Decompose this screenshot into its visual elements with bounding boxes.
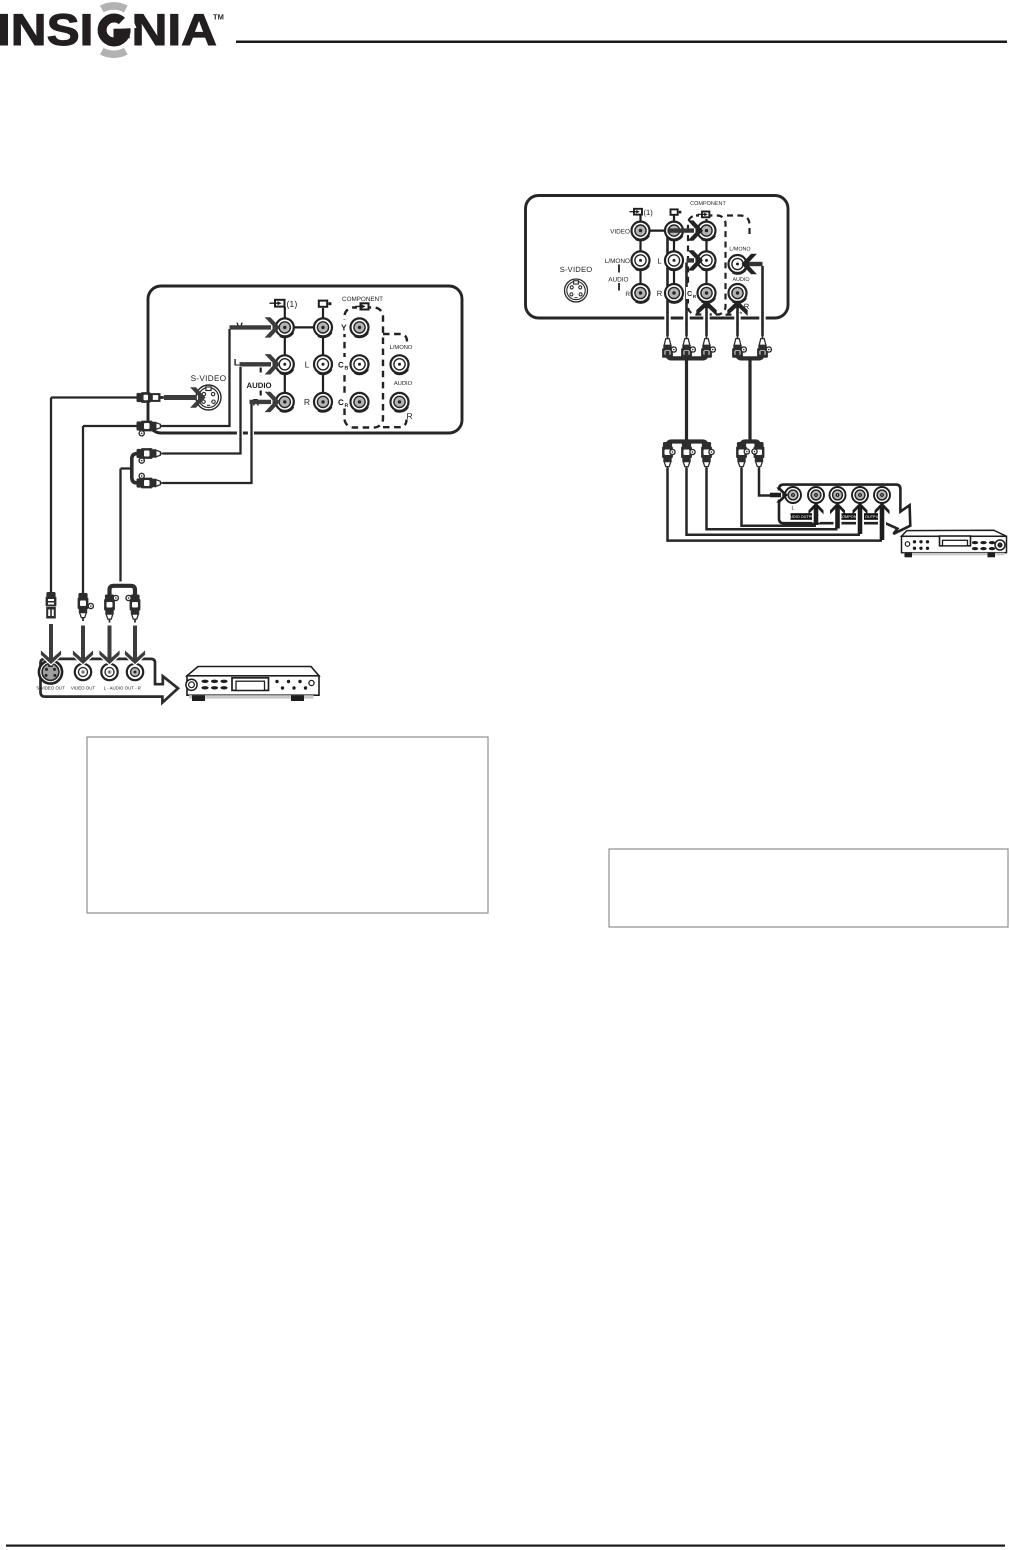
svg-text:C: C bbox=[338, 361, 344, 370]
svg-text:L/MONO: L/MONO bbox=[390, 344, 413, 351]
svg-text:L/MONO: L/MONO bbox=[605, 258, 630, 265]
svg-text:AUDIO: AUDIO bbox=[394, 380, 413, 387]
svg-text:COMPONENT: COMPONENT bbox=[342, 296, 383, 303]
svg-text:VIDEO OUT: VIDEO OUT bbox=[71, 686, 95, 691]
svg-text:S-VIDEO: S-VIDEO bbox=[560, 265, 593, 274]
svg-text:L/MONO: L/MONO bbox=[729, 246, 750, 252]
svg-text:INSI: INSI bbox=[0, 6, 93, 55]
svg-text:(1): (1) bbox=[287, 299, 298, 309]
svg-text:VIDEO: VIDEO bbox=[610, 228, 630, 235]
svg-text:S-VIDEO OUT: S-VIDEO OUT bbox=[36, 686, 65, 691]
svg-text:R: R bbox=[657, 289, 663, 298]
svg-text:L: L bbox=[305, 360, 310, 370]
svg-text:S-VIDEO: S-VIDEO bbox=[191, 374, 227, 383]
svg-text:C: C bbox=[687, 289, 692, 298]
svg-text:AUDIO: AUDIO bbox=[608, 276, 628, 283]
svg-text:B: B bbox=[345, 366, 349, 372]
svg-text:L: L bbox=[657, 256, 661, 265]
svg-text:R: R bbox=[345, 403, 349, 409]
svg-text:AUDIO: AUDIO bbox=[732, 277, 749, 283]
svg-text:R: R bbox=[406, 411, 412, 421]
svg-text:C: C bbox=[338, 398, 344, 407]
svg-text:(1): (1) bbox=[644, 208, 654, 217]
svg-text:R: R bbox=[625, 291, 630, 298]
svg-text:L: L bbox=[234, 358, 240, 369]
svg-text:L: L bbox=[792, 506, 795, 512]
svg-text:NIA: NIA bbox=[132, 6, 217, 55]
svg-text:R: R bbox=[304, 397, 310, 407]
svg-text:COMPONENT: COMPONENT bbox=[690, 201, 726, 207]
svg-text:AUDIO: AUDIO bbox=[246, 381, 271, 390]
svg-text:L - AUDIO OUT - R: L - AUDIO OUT - R bbox=[104, 686, 141, 691]
svg-text:TM: TM bbox=[213, 13, 224, 22]
svg-text:Y: Y bbox=[341, 322, 347, 332]
